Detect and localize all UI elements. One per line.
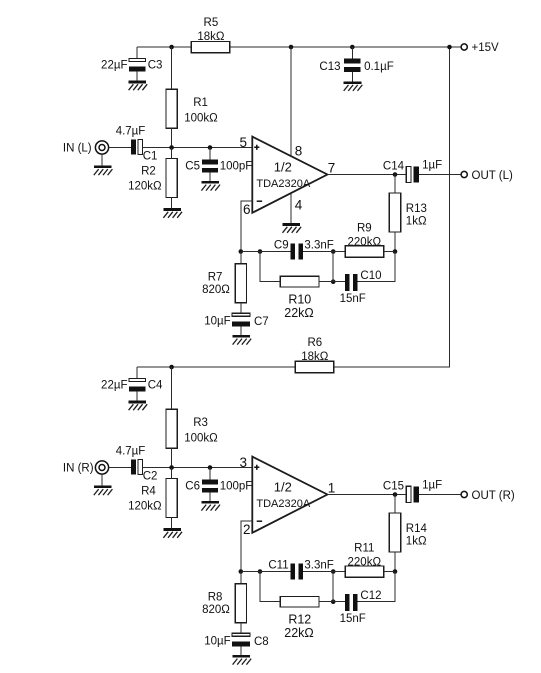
node feedback node B <box>258 249 263 254</box>
op-amp U1b 1/2 TDA2320A <box>252 457 327 533</box>
wire input line to op-amp <box>143 147 253 149</box>
wire C14 to output terminal <box>419 174 461 176</box>
svg-text:7: 7 <box>328 160 336 175</box>
capacitor C7 <box>232 313 250 316</box>
capacitor C8 <box>232 633 250 636</box>
svg-text:R7: R7 <box>208 272 223 284</box>
svg-text:220kΩ: 220kΩ <box>348 236 382 248</box>
wire R1 upper lead <box>171 47 173 90</box>
svg-text:R1: R1 <box>193 97 208 109</box>
svg-text:22kΩ: 22kΩ <box>284 306 314 320</box>
wire C6 bottom lead <box>209 493 211 502</box>
svg-text:C3: C3 <box>148 60 163 72</box>
resistor R7 <box>235 264 246 303</box>
svg-text:TDA2320A: TDA2320A <box>256 498 310 510</box>
node feedback node C bottom <box>331 599 336 604</box>
wire C13 top lead <box>351 47 353 59</box>
capacitor C9 <box>290 243 295 259</box>
resistor R3 <box>166 409 177 448</box>
wire IN (R) jack ground lead <box>101 474 103 485</box>
svg-text:C15: C15 <box>383 480 404 492</box>
wire output lead to C14 <box>327 174 406 176</box>
wire C4 top lead <box>136 367 138 378</box>
node input node at C5 <box>208 145 213 150</box>
wire feedback lower line C12-D <box>358 572 396 602</box>
wire R14 lower lead <box>394 552 396 572</box>
wire C13 bottom lead <box>351 72 353 81</box>
capacitor C1 <box>131 140 136 155</box>
svg-text:C4: C4 <box>148 380 163 392</box>
svg-text:R8: R8 <box>208 592 223 604</box>
wire C5 top lead <box>209 148 211 160</box>
svg-text:C1: C1 <box>143 151 158 163</box>
wire C15 to output terminal <box>419 494 461 496</box>
ground C4 ground <box>129 401 148 411</box>
node output node <box>393 172 398 177</box>
node input node at R1 <box>169 145 174 150</box>
wire R4 upper lead <box>171 468 173 479</box>
resistor R9 <box>345 246 384 257</box>
capacitor C14 <box>406 166 411 182</box>
node feedback node B <box>258 569 263 574</box>
capacitor C15 <box>406 486 411 502</box>
capacitor C12 <box>345 594 350 611</box>
svg-text:OUT (L): OUT (L) <box>472 170 513 182</box>
wire feedback top line R11-D <box>384 571 395 573</box>
capacitor C10 <box>345 274 350 291</box>
svg-text:C8: C8 <box>254 636 269 648</box>
svg-text:1kΩ: 1kΩ <box>406 216 427 228</box>
node feedback node A <box>239 569 244 574</box>
node input node at R3 <box>169 465 174 470</box>
svg-text:C10: C10 <box>360 270 381 282</box>
svg-text:R11: R11 <box>354 543 374 555</box>
svg-text:4.7µF: 4.7µF <box>116 126 146 138</box>
resistor R4 <box>166 479 177 518</box>
ground C8 ground <box>233 655 252 665</box>
svg-text:10µF: 10µF <box>204 635 230 647</box>
node pin 8 rail junction <box>289 45 294 50</box>
svg-text:3.3nF: 3.3nF <box>304 560 333 572</box>
wire R2 upper lead <box>171 148 173 159</box>
svg-text:0.1µF: 0.1µF <box>364 61 394 73</box>
wire feedback lower line R10-C <box>319 281 345 283</box>
svg-text:R14: R14 <box>406 523 428 535</box>
capacitor C6 <box>202 479 218 484</box>
wire feedback lower line B drop <box>260 572 280 602</box>
wire R1 lower lead <box>171 128 173 147</box>
wire pin 8 supply lead <box>290 47 292 156</box>
wire feedback top line A-B-C11 <box>241 571 291 573</box>
svg-text:C6: C6 <box>185 481 200 493</box>
svg-text:C14: C14 <box>383 160 405 172</box>
wire C3 bottom lead <box>136 72 138 81</box>
wire C7 lower lead <box>240 326 242 335</box>
svg-text:8: 8 <box>295 144 303 159</box>
svg-text:TDA2320A: TDA2320A <box>256 178 310 190</box>
terminal OUT (L) terminal <box>461 171 467 177</box>
resistor R14 <box>389 513 400 552</box>
wire IN (L) jack to C1 <box>109 147 131 149</box>
wire C4 bottom lead <box>136 392 138 401</box>
input connector IN (R) jack <box>95 461 108 474</box>
terminal +15V terminal <box>461 44 467 50</box>
op-amp U1a 1/2 TDA2320A <box>252 137 327 213</box>
capacitor C5 <box>202 159 218 164</box>
wire feedback link C <box>332 572 334 602</box>
capacitor C13 <box>344 59 360 64</box>
node R1 rail junction <box>169 45 174 50</box>
wire R8 lower lead <box>240 623 242 633</box>
svg-text:220kΩ: 220kΩ <box>348 556 382 568</box>
svg-text:R2: R2 <box>141 166 156 178</box>
resistor R10 <box>280 276 319 287</box>
wire right-channel supply segment right <box>334 366 450 368</box>
ground IN (R) jack ground <box>94 486 113 496</box>
svg-text:3.3nF: 3.3nF <box>304 240 333 252</box>
wire input line to op-amp <box>143 467 253 469</box>
svg-text:+15V: +15V <box>472 42 500 54</box>
wire feedback lower line C10-D <box>358 252 396 282</box>
svg-text:22µF: 22µF <box>101 60 127 72</box>
wire R14 upper lead <box>394 495 396 514</box>
node feedback node D <box>393 569 398 574</box>
wire right-channel supply segment left <box>137 366 295 368</box>
node output node <box>393 492 398 497</box>
svg-text:1µF: 1µF <box>422 480 442 492</box>
svg-text:1/2: 1/2 <box>274 480 292 495</box>
svg-text:R4: R4 <box>141 486 156 498</box>
wire pin 2 stub <box>241 521 253 571</box>
svg-text:R12: R12 <box>288 613 311 627</box>
wire IN (R) jack to C2 <box>109 467 131 469</box>
svg-text:C12: C12 <box>360 590 381 602</box>
wire C3 top lead <box>136 47 138 58</box>
node C13 rail junction <box>350 45 355 50</box>
wire C8 lower lead <box>240 646 242 655</box>
svg-text:820Ω: 820Ω <box>202 604 230 616</box>
wire R8 upper lead <box>240 572 242 584</box>
svg-text:100pF: 100pF <box>220 481 253 493</box>
svg-text:100kΩ: 100kΩ <box>184 432 218 444</box>
wire R13 lower lead <box>394 232 396 252</box>
wire IN (L) jack ground lead <box>101 154 103 165</box>
ground C7 ground <box>233 335 252 345</box>
svg-text:120kΩ: 120kΩ <box>128 500 162 512</box>
resistor R8 <box>235 584 246 623</box>
node feedback node C top <box>331 249 336 254</box>
svg-text:R9: R9 <box>357 223 372 235</box>
svg-text:3: 3 <box>239 455 247 470</box>
ground IN (L) jack ground <box>94 166 113 176</box>
svg-text:10µF: 10µF <box>204 315 230 327</box>
svg-text:15nF: 15nF <box>340 613 366 625</box>
svg-text:R13: R13 <box>406 203 427 215</box>
svg-text:C13: C13 <box>319 61 340 73</box>
ground C3 ground <box>129 81 148 91</box>
wire feedback top line R9-D <box>384 251 395 253</box>
wire feedback top line C11-C <box>303 571 345 573</box>
wire feedback lower line R12-C <box>319 601 345 603</box>
wire pin 6 stub <box>241 201 253 251</box>
svg-text:1/2: 1/2 <box>274 160 292 175</box>
capacitor C3 <box>129 58 146 61</box>
wire feedback top line A-B-C9 <box>241 251 291 253</box>
svg-text:C5: C5 <box>185 161 200 173</box>
svg-text:C2: C2 <box>143 471 158 483</box>
wire R2 lower lead <box>171 198 173 209</box>
wire R4 lower lead <box>171 518 173 529</box>
wire pin 4 ground lead <box>290 193 292 223</box>
ground pin 4 ground <box>283 223 302 233</box>
resistor R6 <box>295 361 334 372</box>
node feedback node A <box>239 249 244 254</box>
svg-text:1µF: 1µF <box>422 160 442 172</box>
svg-text:5: 5 <box>239 135 247 150</box>
wire supply rail right segment <box>230 46 461 48</box>
resistor R5 <box>191 41 230 52</box>
input connector IN (L) jack <box>95 141 108 154</box>
capacitor C4 <box>129 378 146 381</box>
svg-text:R6: R6 <box>307 337 322 349</box>
wire output lead to C15 <box>327 494 406 496</box>
wire C5 bottom lead <box>209 173 211 182</box>
resistor R11 <box>345 566 384 577</box>
svg-text:100pF: 100pF <box>220 161 253 173</box>
wire R7 lower lead <box>240 303 242 313</box>
svg-text:R10: R10 <box>288 293 311 307</box>
wire supply rail left segment <box>137 46 191 48</box>
wire C6 top lead <box>209 468 211 480</box>
ground C5 ground <box>201 181 220 191</box>
capacitor C2 <box>131 460 136 475</box>
wire feedback top line C9-C <box>303 251 345 253</box>
node feedback node C top <box>331 569 336 574</box>
wire R13 upper lead <box>394 175 396 194</box>
node R3 rail junction <box>169 365 174 370</box>
svg-text:18kΩ: 18kΩ <box>197 31 225 43</box>
svg-text:1kΩ: 1kΩ <box>406 536 427 548</box>
wire R3 lower lead <box>171 448 173 467</box>
capacitor C11 <box>290 563 295 579</box>
node feedback node C bottom <box>331 279 336 284</box>
svg-text:OUT (R): OUT (R) <box>472 490 515 502</box>
svg-text:6: 6 <box>243 202 251 217</box>
wire feedback lower line B drop <box>260 252 280 282</box>
svg-text:IN (R): IN (R) <box>63 463 94 475</box>
terminal OUT (R) terminal <box>461 491 467 497</box>
node input node at C6 <box>208 465 213 470</box>
resistor R12 <box>280 596 319 607</box>
svg-text:22kΩ: 22kΩ <box>284 626 314 640</box>
wire +15V rail down to right channel <box>449 47 451 368</box>
svg-text:C9: C9 <box>274 240 289 252</box>
ground R2 ground <box>163 208 182 218</box>
svg-text:100kΩ: 100kΩ <box>184 112 218 124</box>
resistor R13 <box>389 193 400 232</box>
svg-text:IN (L): IN (L) <box>63 143 92 155</box>
svg-text:2: 2 <box>243 522 251 537</box>
node +15V branch junction <box>447 45 452 50</box>
resistor R2 <box>166 159 177 198</box>
wire R3 upper lead <box>171 367 173 410</box>
svg-text:4: 4 <box>295 197 303 212</box>
svg-text:R3: R3 <box>193 417 208 429</box>
svg-text:4.7µF: 4.7µF <box>116 446 146 458</box>
ground C6 ground <box>201 501 220 511</box>
ground C13 ground <box>344 81 363 91</box>
svg-text:R5: R5 <box>204 17 219 29</box>
ground R4 ground <box>163 528 182 538</box>
wire R7 upper lead <box>240 252 242 264</box>
resistor R1 <box>166 89 177 128</box>
svg-text:22µF: 22µF <box>101 380 127 392</box>
svg-text:C11: C11 <box>268 560 288 572</box>
svg-text:1: 1 <box>328 480 336 495</box>
node feedback node D <box>393 249 398 254</box>
svg-text:18kΩ: 18kΩ <box>301 351 329 363</box>
svg-text:C7: C7 <box>254 316 269 328</box>
svg-text:820Ω: 820Ω <box>202 284 230 296</box>
wire feedback link C <box>332 252 334 282</box>
svg-text:120kΩ: 120kΩ <box>128 180 162 192</box>
svg-text:15nF: 15nF <box>340 293 366 305</box>
